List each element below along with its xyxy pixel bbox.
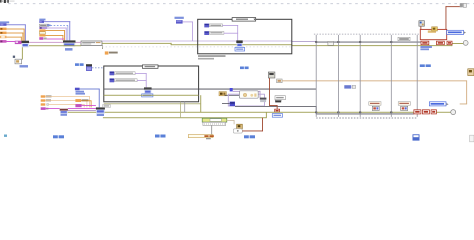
result label box in case1 xyxy=(235,47,245,51)
wire tan far right vertical xyxy=(465,80,468,104)
wire magenta T10 to node2 xyxy=(47,38,65,41)
bottom-left terminal O2 (orange) xyxy=(41,99,51,101)
cyan mark bottom left edge xyxy=(4,135,7,137)
label (blue text) above refnum icon xyxy=(175,17,184,19)
wire magenta T5 to node1 xyxy=(7,40,16,43)
wire brown vertical from VISA icon xyxy=(268,78,271,106)
small blue icon on loop bottom edge xyxy=(230,102,235,107)
junction dots olive B xyxy=(315,111,392,113)
wire olive crossing case2 xyxy=(104,94,199,97)
wire dark case2 to disable structure xyxy=(199,88,317,91)
loop count circle top right xyxy=(463,41,468,46)
refnum terminal (blue) xyxy=(176,20,183,24)
wire olive A riser to olive B xyxy=(265,112,268,118)
wire olive error right segment xyxy=(292,44,452,47)
blue label bottom right xyxy=(429,102,448,106)
wire purple case2 rowA down xyxy=(135,73,147,87)
VISA resource label box xyxy=(81,41,102,45)
wire purple rowB to close node xyxy=(224,32,238,35)
label box frame3 bottom xyxy=(369,102,381,106)
red error terminal BR1 xyxy=(414,110,421,114)
loop count circle bottom right xyxy=(451,110,456,115)
label box frame4 bottom xyxy=(398,102,410,106)
rounded box below flag icon xyxy=(233,129,242,133)
wire purple case2 rowB down xyxy=(137,79,147,82)
wire purple segment node1-node2 xyxy=(29,41,63,44)
terminal T3 (orange control) xyxy=(0,32,7,34)
wire olive error case1 segment xyxy=(171,43,293,46)
wire grey drop from case2 bottom 1 xyxy=(179,102,182,118)
wire purple U2 to label xyxy=(76,41,82,44)
small label box at case2 corner xyxy=(103,105,111,108)
blue icon bottom right xyxy=(413,134,420,140)
wire blue T1 to node1 xyxy=(7,24,26,40)
grey text below numeric box xyxy=(206,138,211,139)
terminal T9 (orange control) xyxy=(39,34,45,36)
wire olive case2 drop to olive B xyxy=(199,95,202,112)
frame divider V2 xyxy=(337,35,340,117)
wire dashed grey reference line xyxy=(102,46,292,48)
wire orange T2 to node1 xyxy=(7,29,25,41)
queue terminal icon left of case2 xyxy=(86,64,92,71)
wire purple under nodes xyxy=(68,109,96,112)
wire orange T8 to node2 xyxy=(46,30,65,40)
wire dark purple across disable structure xyxy=(316,41,421,44)
wire purple long middle xyxy=(102,40,292,43)
slider scale box xyxy=(203,122,226,125)
dashed frame border across top xyxy=(8,3,474,5)
tan connector right of VISA icon xyxy=(277,79,283,83)
wire olive error left segment xyxy=(29,44,81,47)
comment text below case1 line1 xyxy=(198,55,226,57)
blue constant above node4 xyxy=(75,88,80,91)
wire olive step down xyxy=(170,43,173,45)
wire orange T9 to node2 xyxy=(46,35,64,40)
iteration node at loop right edge xyxy=(260,98,267,103)
wire orange O3 to node4 xyxy=(49,104,85,107)
wire blue T6 to node2 xyxy=(44,21,70,40)
wire orange T3 to node1 xyxy=(7,33,24,41)
label (blue text) bottom middle xyxy=(244,135,249,138)
tan function icon above subVI xyxy=(432,27,438,31)
DAQ icon top right xyxy=(419,21,425,27)
label (blue text) below U3 xyxy=(61,114,68,116)
wire dark bottom segment in structure xyxy=(316,113,414,116)
white label box right of loop xyxy=(275,96,285,100)
wire blue constant to node4 xyxy=(80,89,100,108)
label (blue text) below U4 xyxy=(97,114,104,116)
terminal label (blue text) col1 top xyxy=(0,21,9,23)
orange constant above case2 xyxy=(105,51,118,54)
wire olive under case2 bottom xyxy=(104,102,201,105)
node U4 (VISA read VI icon) xyxy=(96,107,105,113)
label (blue text) left of case2 xyxy=(75,63,79,66)
wire magenta M1 to node3 xyxy=(46,107,60,110)
wire olive A bottom xyxy=(103,116,267,119)
blue label top right xyxy=(447,30,466,34)
wire brown top right vertical xyxy=(445,6,448,29)
wire tan slider to flag icon xyxy=(227,120,235,124)
red unbundle icon xyxy=(275,109,280,112)
tan icon far right xyxy=(468,69,474,76)
magenta function block left of node1 xyxy=(15,41,22,44)
wire dark into wait icon xyxy=(225,94,240,97)
VISA icon above brown wire xyxy=(268,72,275,78)
wire orange mid to node4 xyxy=(81,100,92,107)
terminal T4 (orange control) xyxy=(0,36,7,39)
terminal T6 (blue control) xyxy=(39,21,44,23)
terminal label (blue text) col2 top xyxy=(39,19,45,21)
wire orange O2 to node4 xyxy=(45,100,87,107)
slider indicator (green bar) xyxy=(202,118,227,122)
wire dark drop at structure left edge xyxy=(315,106,318,114)
label (blue text) below TR terminals line2 xyxy=(420,48,429,50)
wire purple refnum into case1 xyxy=(183,22,193,42)
result label box below red icon xyxy=(272,114,282,118)
diagram disable structure top hatched border xyxy=(314,33,423,35)
terminal T7 (lavender cluster) xyxy=(39,27,47,29)
wire olive stub to circle BR xyxy=(436,111,450,114)
top right sigma icon pair xyxy=(460,3,467,7)
wire dark crossing case2 xyxy=(104,88,199,91)
wire stub below resource label xyxy=(101,45,104,49)
orange constant mid cluster xyxy=(75,99,88,102)
terminal T1 (blue control) xyxy=(0,23,7,26)
blue node on dark wire xyxy=(230,88,233,91)
wire olive down from U1 xyxy=(21,47,24,59)
labelled constant row col2 xyxy=(39,24,50,26)
red error terminal BR2 xyxy=(422,110,429,114)
while loop (small, lavender border) xyxy=(228,94,264,106)
label (blue text) two lines under blue constant xyxy=(76,91,86,95)
terminal T8 (orange control) xyxy=(39,29,45,31)
label (blue text) below U2 xyxy=(65,48,73,51)
wire brown top right horizontal xyxy=(446,5,460,8)
bottom-left terminal M1 (magenta) xyxy=(41,107,49,110)
magenta constant mid cluster xyxy=(75,104,81,107)
bottom-left terminal O1 (orange) xyxy=(41,95,52,97)
white constant box col2 xyxy=(39,32,45,34)
red error terminal BR3 xyxy=(431,110,436,114)
wire brown bend to red icon xyxy=(269,105,278,109)
equality function icons xyxy=(219,92,226,96)
wire grey drop from case2 bottom 2 xyxy=(183,102,186,113)
red error terminal TR1 xyxy=(421,41,429,45)
wire dark loop to structure xyxy=(235,105,316,108)
wire magenta mid to node4 xyxy=(82,104,96,107)
frame divider V4 xyxy=(390,35,393,117)
red error terminal TR2 xyxy=(437,41,445,45)
frame divider V3 xyxy=(359,35,362,117)
boolean icon right of loop xyxy=(275,99,281,103)
label (blue text) bottom mid-left xyxy=(155,135,160,138)
wire lavender T7 to node2 xyxy=(47,28,66,41)
label (blue text) bottom left xyxy=(53,135,58,138)
comment text below case1 line2 xyxy=(198,58,214,60)
case structure 2 xyxy=(104,66,199,102)
close node in case2 xyxy=(144,87,152,93)
bottom-left terminal O3 (orange) xyxy=(41,103,49,105)
red error terminal TR3 xyxy=(447,41,452,45)
faint icon bottom right corner xyxy=(470,135,474,142)
subVI box with red border top right xyxy=(420,29,446,39)
wire brown DAQ icon down xyxy=(419,26,422,29)
flag function icon xyxy=(237,124,243,129)
wire orange T4 to node1 xyxy=(7,37,22,41)
wire brown bottom bend xyxy=(242,118,263,132)
dashed wire from queue icon into case2 xyxy=(92,67,104,69)
terminal T2 (orange control) xyxy=(0,28,7,31)
wire dark into blue icon xyxy=(222,102,230,105)
white icon on wires in structure xyxy=(328,41,334,45)
case structure 2 selector label xyxy=(142,65,158,68)
frame divider V5 xyxy=(416,35,419,117)
diagram disable structure bottom hatched border xyxy=(316,117,417,119)
dashed blue wire from constant xyxy=(51,25,69,40)
wire olive error middle segment xyxy=(102,42,172,45)
wire tan far right horizontal bottom xyxy=(460,103,467,106)
small function icon below U1 xyxy=(15,59,22,64)
node U1 (open/config VI icon) xyxy=(22,41,30,48)
case structure 1 selector label xyxy=(232,18,256,22)
title text fragment top-left xyxy=(0,0,15,3)
node U2 (VISA configure VI icon) xyxy=(63,40,76,46)
frame divider V1 xyxy=(315,35,318,117)
wire olive B long bottom xyxy=(68,111,414,114)
wire slider to numeric box xyxy=(210,125,213,134)
junction dots on dark wire xyxy=(315,41,392,43)
case structure 1 xyxy=(198,19,292,54)
numeric indicator box bottom xyxy=(188,135,213,138)
property node row B inside case1 xyxy=(204,31,224,35)
blue terminal in frame1 xyxy=(344,85,355,88)
wire olive jog to loop count circle xyxy=(452,43,464,46)
wait ms metronome icon xyxy=(239,91,258,98)
constant dot xyxy=(13,56,15,58)
wire magenta node3 to node4 xyxy=(68,107,96,110)
property node row A inside case1 xyxy=(204,24,222,28)
node U3 (VISA write VI icon) xyxy=(60,109,68,114)
property node row B inside case2 xyxy=(110,78,138,82)
result label box in case2 xyxy=(142,94,153,97)
wire purple case1 to structure xyxy=(292,40,316,43)
label (blue text) right structure mid xyxy=(420,64,425,67)
label (blue text) misc above case2 area xyxy=(240,67,244,70)
wire purple rowA to close node xyxy=(222,25,238,41)
label (blue text) below icon xyxy=(20,65,29,67)
terminal T10 (magenta string) xyxy=(39,37,46,40)
icon frame4 bottom xyxy=(401,106,408,110)
label (blue text) below TR terminals line1 xyxy=(420,46,432,48)
wire purple arc over wait icon xyxy=(233,91,261,98)
terminal T5 (magenta string control) xyxy=(0,40,7,43)
white label on top band xyxy=(398,37,410,40)
wire orange O1 to node4 xyxy=(45,96,90,107)
icon frame3 bottom xyxy=(372,106,379,110)
close reference node in case1 xyxy=(236,40,242,47)
wire tan long to right edge xyxy=(282,79,467,82)
property node row A inside case2 xyxy=(110,71,136,75)
